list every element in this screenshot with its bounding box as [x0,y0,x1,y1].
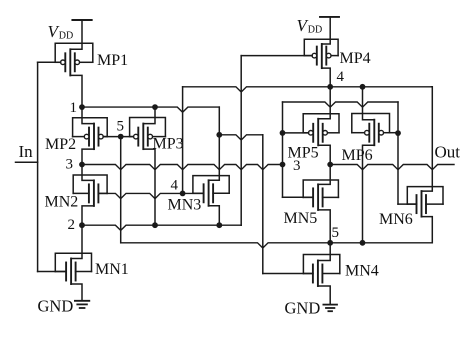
transistor MN6 (NMOS) [416,195,418,213]
MP1 channel [69,49,71,75]
VDD supply symbol left [72,19,91,21]
wire MP1 drain to node 1 [70,75,82,107]
MP4 gate lead wire to node 2 riser [241,55,312,57]
wire net3 riser (node3 to MP5/MN5 gates) [282,102,284,197]
svg-text:MN1: MN1 [95,261,129,278]
wire MP2 drain to node 3 [82,149,94,164]
node 1 junction dot at MP1 drain [79,104,85,110]
svg-text:5: 5 [332,225,340,241]
wire MN3 drain down to node 2 rail [209,206,220,225]
MN4 gate lead wire from node 1 net [263,273,313,275]
wire MP5 drain to Out rail [318,145,330,164]
wire MP3 drain down to node 2 rail [143,149,155,225]
node 3 junction dot right [280,162,286,168]
svg-text:GND: GND [38,297,74,316]
MN6 channel [421,191,423,217]
node 2 junction dot left [79,222,85,228]
svg-text:4: 4 [337,69,345,85]
wire node 5 lead (MP2 bulk to MP3 gate) [103,136,133,138]
svg-text:1: 1 [70,100,78,116]
transistor MN2 (NMOS) [88,184,90,202]
wire VDD to MP1 source [70,20,82,49]
node 1 rail [82,107,219,112]
MN4 channel [317,261,319,287]
MP1 gate lead from In bus [38,61,61,63]
MP5 channel [317,119,319,146]
node 1 junction dot at MP3 source [152,104,158,110]
svg-text:MN4: MN4 [345,263,379,280]
wire node 2 to MN1 drain [71,225,82,258]
wire node1 net horizontal (MN3 source to MN4 gate riser) [219,135,262,140]
MN6 gate lead wire [398,203,417,205]
svg-text:MN3: MN3 [168,197,202,214]
transistor MN5 (NMOS) [312,188,314,206]
node 3 junction dot left [79,162,85,168]
MN1 gate lead from In bus [38,271,67,273]
wire node 2 up to MP4 gate [240,56,242,226]
svg-text:3: 3 [66,157,74,173]
wire MN6 gate riser [397,102,399,204]
transistor MP6 (PMOS) [368,124,370,142]
wire net4 lead MN2 bulk to MN3 gate [98,193,202,198]
In port lead [16,161,38,163]
MN5 channel [317,184,319,210]
wire MP6 drain down to node 5 rail [363,145,375,243]
svg-text:MP1: MP1 [97,52,128,69]
svg-text:2: 2 [68,217,76,233]
VDD supply symbol right [320,16,339,18]
wire MN2 drain to node 2 [82,206,94,225]
wire VDD to MP4 source [322,17,330,44]
svg-text:MP2: MP2 [45,136,76,153]
node 4 rail [183,87,432,92]
wire MN4 source to ground [318,286,330,304]
MP3 channel [142,124,144,150]
junction dot MP5 gate [280,130,286,136]
wire node1 to MP3 source [143,107,155,124]
node 5 junction dot at MP6 drain [360,240,366,246]
MP6 bulk lead extension to MN6 gate riser [390,132,399,134]
svg-text:GND: GND [285,299,321,318]
junction dot MN3 source / MP5 gate branch [216,132,222,138]
wire MN6 source to node 5 rail right end [422,217,433,243]
node 5 junction dot [118,134,124,140]
svg-text:DD: DD [59,31,73,42]
svg-text:MP4: MP4 [340,50,371,67]
node 2 rail [82,225,241,230]
transistor MP4 (PMOS) [316,47,318,65]
junction dot MP6 bulk / MN6 gate [395,130,401,136]
node 4 junction dot (MN2/MN3 gates) [180,191,186,197]
transistor MN3 (NMOS) [203,184,205,202]
Out rail [330,165,454,170]
wire node 5 to MN4 drain [318,243,330,261]
MN3 channel [208,180,210,206]
Out junction dot [327,162,333,168]
MP5 gate lead wire [283,132,309,134]
transistor MP5 (PMOS) [312,124,314,142]
MP2 channel [93,124,95,150]
svg-text:4: 4 [171,178,179,194]
node 4 junction dot at MP6 source [360,84,366,90]
wire node 5 vertical down to node 5 rail [120,137,122,243]
wire node 4 to MP5 source [318,87,330,119]
wire node 3 to MN2 source [82,165,94,181]
wire node 4 vertical up to node 4 rail [182,87,184,194]
svg-text:DD: DD [308,25,322,36]
svg-text:MP3: MP3 [153,136,184,153]
transistor MP2 (PMOS) [88,128,90,146]
wire node1 to MP2 source [82,107,94,124]
svg-text:MN2: MN2 [45,194,79,211]
wire Out to MN5 source [318,165,330,185]
wire net3 branch upper horizontal [283,102,399,107]
ground symbol left [75,300,89,302]
transistor MN1 (NMOS, gate tied to In) [65,263,67,281]
node 5 junction dot at MN5 drain [327,240,333,246]
svg-text:Out: Out [435,143,461,162]
wire In bus vertical [37,62,39,271]
ground symbol right [323,304,337,306]
wire node 4 to MP6 source [363,87,375,120]
wire MN1 source to ground [71,284,82,301]
transistor MP3 (PMOS) [137,128,139,146]
MP6 channel [373,120,375,146]
transistor MP1 (PMOS, gate tied to In, DTMOS box) [64,53,66,71]
MN5 gate lead wire from node 3 riser [283,196,314,198]
svg-text:In: In [19,142,34,161]
svg-text:MP6: MP6 [342,147,373,164]
wire node1 net riser down to MN4 gate lead [262,135,264,274]
svg-text:MN6: MN6 [379,211,413,228]
wire MN3 source jog [209,135,220,181]
svg-text:5: 5 [117,119,125,135]
node 2 junction dot at MP3 drain [152,222,158,228]
wire MN5 drain to node 5 rail [318,210,330,243]
svg-text:MN5: MN5 [284,210,318,227]
MN2 channel [93,180,95,206]
wire MP4 drain to node 4 rail [322,68,330,87]
wire node 4 right bus down to MN6 drain [422,87,433,191]
node 4 junction dot at MP5 source [327,84,333,90]
wire node1 branch down to MN3 source [218,107,220,135]
node 5 rail [121,243,433,248]
node 3 rail [82,165,283,170]
node 2 junction dot at MN3 drain [216,222,222,228]
svg-text:MP5: MP5 [288,145,319,162]
transistor MN4 (NMOS) [312,265,314,283]
MP4 channel [321,44,323,68]
MN1 channel [70,259,72,285]
